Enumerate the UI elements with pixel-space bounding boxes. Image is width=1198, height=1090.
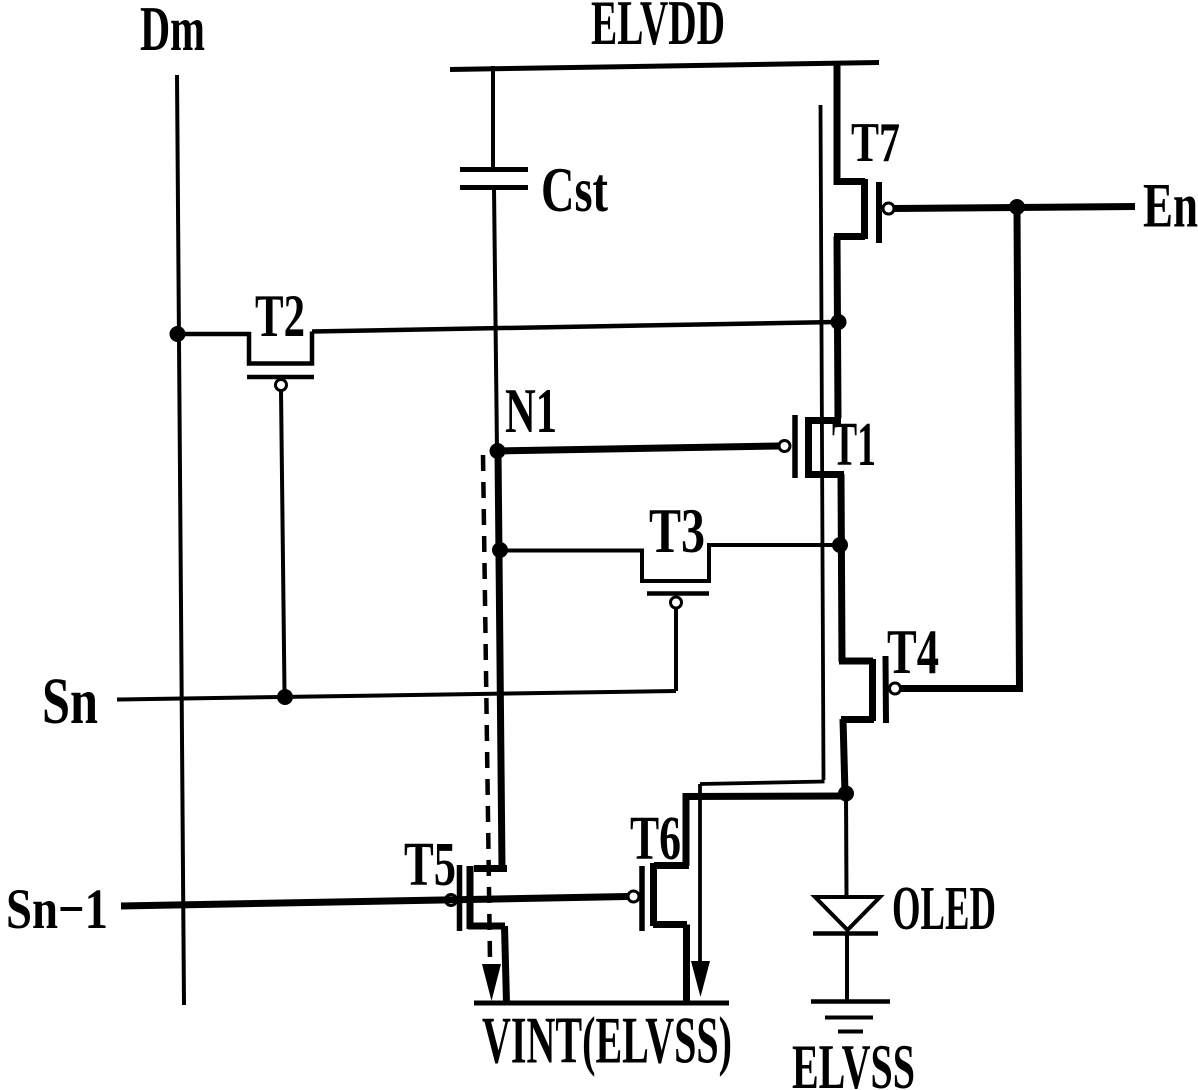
wire: N1 to T1 gate (thick) [497,446,779,451]
svg-text:T7: T7 [851,112,900,174]
transistor T6 bottom step [653,921,687,928]
transistor T7 top step [834,178,866,185]
node dot on Dm for T2 [170,326,186,342]
wire: Cst to node N1 [494,188,497,451]
wire: T7 gate to En [894,207,1135,209]
wire: T6 drain down to VINT line (thick) [683,925,690,1004]
diode OLED cathode bar [813,931,878,936]
data line Dm (vertical) [177,75,184,1005]
transistor T5 gate bubble [446,895,457,906]
svg-text:OLED: OLED [892,875,996,943]
svg-text:T6: T6 [630,805,681,873]
transistor T1 top step [805,417,841,424]
transistor T3 gate bubble [671,597,682,608]
transistor T2 gate lead down to Sn [281,391,285,693]
thin bypass wire from below rail down [821,105,824,780]
ground ELVSS bar 1 [811,999,890,1004]
thin wire down to VINT arrow [698,784,702,963]
wire: T5 drain down to VINT line (thick) [505,926,507,1003]
transistor T7 channel [861,179,868,239]
transistor T2 body [180,332,312,364]
svg-text:T4: T4 [887,617,939,687]
capacitor Cst top plate [460,167,528,172]
wire: T1 to T4 (thick, main vertical) [841,474,842,662]
svg-text:Sn: Sn [42,665,98,738]
arrowhead into VINT (left, dashed path) [482,964,501,1001]
transistor T3 body (source wire, channel, drain wire) [500,545,836,581]
transistor T4 gate bar [883,656,890,723]
arrowhead into VINT (right) [691,961,710,997]
transistor T6 channel [650,863,657,926]
transistor T1 gate bubble [779,441,790,452]
transistor T1 bottom step [805,471,844,478]
svg-text:T3: T3 [649,495,705,566]
svg-text:N1: N1 [505,376,557,446]
ground ELVSS bar 3 [838,1030,863,1034]
wire: rail to capacitor Cst [491,66,495,168]
wire: T7 to T1 (thick, main vertical) [837,237,838,419]
wire: T2 to main vertical line [312,322,836,332]
wire: N1 column down to T5 (thick) [498,451,502,869]
transistor T7 gate bar [876,182,882,243]
transistor T7 bottom step [834,233,865,240]
transistor T5 channel [467,866,474,929]
transistor T3 gate plate [647,591,709,596]
wire: OLED cathode down to ground [845,934,849,1002]
VINT supply line [474,1001,729,1006]
transistor T4 bottom step [841,716,874,723]
transistor T7 gate bubble [883,203,894,214]
transistor T2 gate bubble [276,380,287,391]
svg-text:Dm: Dm [140,0,205,64]
dashed init path from N1 [483,455,490,961]
transistor T1 channel [805,417,812,475]
transistor T3 gate lead down to Sn [674,608,678,691]
wire: T4 down to anode node (thick) [843,719,845,793]
ground ELVSS bar 2 [825,1016,873,1020]
wire: En down to T4 gate [901,207,1020,689]
svg-text:Cst: Cst [541,154,608,225]
transistor T6 top step [654,862,689,869]
transistor T1 gate bar [792,415,798,478]
ELVDD power rail [450,63,879,70]
node junction dot on N1 column at T3 wire [492,542,508,558]
svg-text:En: En [1143,170,1198,241]
node dot anode junction [838,786,854,802]
transistor T6 gate bubble [628,891,639,902]
transistor T4 gate bubble [890,683,901,694]
svg-text:T1: T1 [832,411,876,479]
wire: anode node down to OLED [844,794,849,898]
svg-text:Sn−1: Sn−1 [6,878,108,941]
svg-text:ELVSS: ELVSS [792,1032,915,1090]
transistor T6 gate bar [639,866,645,931]
node dot on En wire [1009,199,1025,215]
transistor T5 bottom step [468,923,505,930]
node dot on Sn for T2 gate [277,689,293,705]
diode OLED triangle [815,897,880,930]
transistor T4 top step [839,658,873,665]
node dot T3 wire on main vertical [832,537,848,553]
transistor T5 top step [474,865,507,872]
scan line Sn [117,691,676,700]
wire: anode node to T6 (thick) [686,796,846,866]
transistor T2 gate plate [247,375,314,380]
transistor T4 channel [869,659,876,721]
capacitor Cst bottom plate [460,185,528,190]
svg-text:T2: T2 [255,283,305,349]
scan line Sn-1 [121,897,628,907]
wire: ELVDD rail down to T7 (thick) [834,62,841,182]
thin bypass wire horizontal [700,782,825,785]
svg-text:ELVDD: ELVDD [591,0,725,58]
svg-text:T5: T5 [404,831,456,899]
node N1 junction dot [490,443,506,459]
node dot T2 wire on main vertical [831,314,847,330]
transistor T5 gate bar [457,865,463,931]
svg-text:VINT(ELVSS): VINT(ELVSS) [482,1004,732,1078]
